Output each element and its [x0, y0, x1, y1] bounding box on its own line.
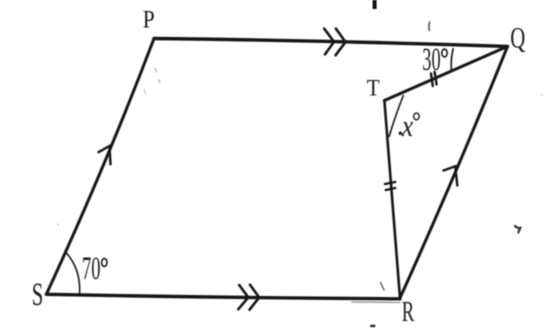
angle arc 30 at Q — [451, 48, 453, 71]
equal tick marks on TR — [385, 182, 395, 190]
faint dot right area — [541, 94, 543, 96]
parallel mark single arrow on SP — [99, 146, 111, 164]
svg-text:x: x — [401, 108, 414, 143]
svg-text:T: T — [367, 76, 380, 101]
wire segment TQ — [384, 46, 507, 100]
wire side PQ — [154, 39, 508, 47]
svg-text:Q: Q — [510, 22, 525, 55]
wire side SP — [46, 39, 154, 295]
stray mark left of R — [381, 283, 385, 291]
stray mark vertical bar top — [373, 0, 377, 9]
stray squiggle right side — [515, 226, 520, 232]
parallel mark double chevron on SR — [238, 285, 259, 310]
scan shadow under SR near R — [352, 301, 400, 304]
stray dash bottom — [370, 325, 376, 327]
stray mark apostrophe above PQ — [428, 22, 431, 31]
svg-text:S: S — [32, 277, 44, 313]
wire side SR — [46, 294, 400, 299]
wire side QR — [400, 46, 508, 298]
angle arc x at T — [389, 95, 404, 137]
stray speck below P 3 — [144, 90, 145, 94]
stray speck below P 2 — [159, 80, 160, 82]
wire segment TR — [384, 101, 400, 299]
svg-text:70: 70 — [82, 251, 101, 287]
angle arc 70 at S — [67, 253, 80, 294]
svg-text:30: 30 — [422, 42, 440, 78]
equal tick marks on TQ — [431, 72, 437, 86]
svg-text:R: R — [402, 296, 415, 328]
parallel mark single arrow on QR — [444, 166, 458, 185]
stray speck below P 1 — [154, 69, 157, 72]
svg-text:P: P — [143, 7, 155, 34]
parallel mark double chevron on PQ — [324, 29, 345, 56]
label x degrees — [399, 132, 402, 135]
faint dot left area — [57, 224, 59, 226]
